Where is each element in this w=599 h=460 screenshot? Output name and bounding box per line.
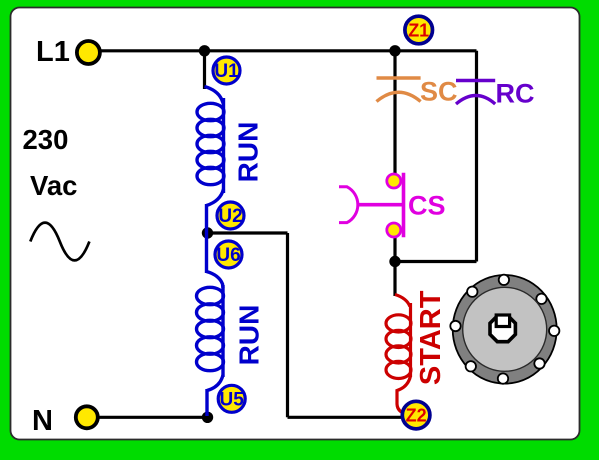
terminal U2: [217, 202, 244, 229]
terminal L1: [77, 41, 100, 64]
centrifugal switch CS: [339, 173, 404, 237]
wire: top horizontal bus L1 to RC branch: [100, 49, 477, 52]
svg-text:230: 230: [23, 124, 69, 155]
capacitor RC symbol: [456, 81, 495, 105]
CS top contact: [387, 174, 401, 188]
capacitor SC symbol: [377, 78, 421, 102]
CS bottom contact: [387, 223, 401, 237]
wire: RC branch bottom horizontal to CS junction: [395, 260, 477, 263]
svg-text:SC: SC: [420, 77, 458, 107]
wire: blue link U2 to U6 through junction: [205, 204, 208, 273]
wire: RUN1 top lead from junction: [203, 51, 206, 89]
junction at N/U5 node: [202, 412, 213, 423]
svg-text:Z2: Z2: [406, 406, 427, 426]
svg-text:Z1: Z1: [408, 20, 429, 40]
motor bolt left: [450, 321, 460, 331]
wire: RC branch vertical right side: [475, 51, 478, 262]
junction at U2/U6 node: [202, 227, 213, 238]
start winding coil: [386, 295, 411, 414]
svg-text:U1: U1: [214, 61, 239, 82]
motor shaft octagon: [490, 316, 515, 342]
run winding 2 coil: [197, 272, 224, 417]
svg-text:Vac: Vac: [30, 170, 77, 201]
motor bolt top-right: [536, 294, 546, 304]
junction at L1/U1 node: [199, 45, 210, 56]
run winding 1 coil: [197, 87, 224, 206]
motor shaft keyway: [496, 315, 509, 327]
wire: bottom horizontal to Z2: [288, 416, 403, 419]
junction at CS/START node: [389, 256, 400, 267]
wire: jumper branch vertical down right of coils: [286, 233, 289, 417]
wire: junction to START winding stub: [393, 262, 396, 297]
wire: CS bottom contact to junction: [393, 236, 396, 263]
motor bolt bottom-left: [466, 361, 476, 371]
wire: N lead: [98, 416, 208, 419]
svg-text:U6: U6: [216, 245, 240, 266]
svg-text:START: START: [415, 290, 447, 385]
motor bolt bottom-right: [534, 358, 544, 368]
svg-text:RC: RC: [496, 79, 535, 109]
svg-text:N: N: [32, 405, 53, 437]
svg-text:RUN: RUN: [233, 122, 264, 183]
junction at Z1 node: [389, 45, 400, 56]
terminal U6: [215, 241, 242, 268]
motor bolt top: [499, 275, 509, 285]
terminal Z1: [405, 16, 433, 44]
svg-text:CS: CS: [408, 191, 446, 221]
motor housing outer ring: [453, 275, 557, 384]
terminal U5: [218, 385, 245, 412]
motor bolt top-left: [467, 287, 477, 297]
terminal Z2: [402, 401, 430, 429]
wire: U2-U6 jumper horizontal: [207, 231, 288, 234]
AC sine wave symbol: [30, 223, 89, 261]
motor bolt bottom: [498, 373, 508, 383]
motor inner face: [463, 287, 547, 371]
motor bolt right: [549, 326, 559, 336]
svg-text:RUN: RUN: [234, 305, 265, 366]
svg-text:L1: L1: [36, 36, 70, 68]
terminal N: [76, 406, 98, 428]
svg-text:U5: U5: [220, 390, 245, 411]
svg-text:U2: U2: [218, 206, 242, 227]
wire: SC/CS vertical branch from top bus: [393, 51, 396, 175]
terminal U1: [213, 57, 240, 84]
